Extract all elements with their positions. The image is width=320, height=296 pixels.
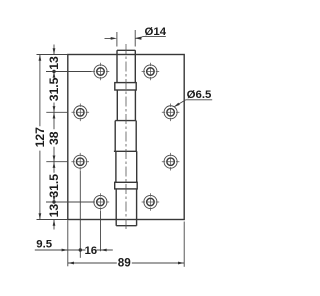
dimension 9.5 arrow	[62, 249, 68, 252]
knuckle segment 1 (top)	[117, 50, 135, 82]
knuckle barrel bottom cap	[116, 225, 136, 227]
bottom extension line plate right edge	[183, 222, 185, 267]
dimension 16 arrow	[101, 249, 107, 252]
extension line bottom edge (left)	[37, 219, 68, 221]
svg-text:38: 38	[47, 131, 61, 145]
screw hole H3 (left outer, row 2)	[72, 104, 90, 122]
screw hole H2 (right inner, row 1)	[142, 63, 160, 81]
svg-text:Ø14: Ø14	[145, 26, 167, 38]
extension line top edge (left)	[37, 54, 68, 56]
dimension 89 line	[68, 262, 184, 264]
pin centerline	[125, 44, 127, 232]
svg-text:13: 13	[47, 204, 61, 218]
chain dot at row4	[52, 200, 55, 203]
knuckle segment 2	[117, 90, 135, 121]
knuckle joint line 1	[115, 120, 136, 122]
extension line row 4	[46, 201, 94, 203]
dimension Ø6.5 label underline	[186, 99, 212, 101]
svg-text:127: 127	[33, 127, 47, 148]
knuckle barrel top cap	[117, 49, 135, 51]
svg-text:31.5: 31.5	[47, 77, 61, 101]
extension line row 1	[46, 71, 92, 73]
chain dimension line x=54 segments	[53, 45, 55, 230]
chain arrow down above row4	[53, 196, 56, 202]
dimension Ø6.5 leader arrow	[175, 100, 186, 107]
chain arrow up below bottom edge	[53, 220, 56, 226]
dimension 127 line	[39, 55, 41, 220]
svg-text:13: 13	[47, 56, 61, 70]
screw hole H1 (left inner, row 1)	[92, 63, 110, 81]
svg-text:89: 89	[118, 257, 132, 270]
dimension chain dot at hole column	[79, 248, 82, 251]
knuckle segment 3	[115, 121, 136, 152]
bottom extension line hole column inner	[100, 211, 102, 251]
svg-text:Ø6.5: Ø6.5	[187, 89, 212, 101]
knuckle joint line 2	[114, 150, 137, 152]
bottom extension line plate left edge	[67, 220, 69, 266]
chain arrows at row2	[53, 106, 56, 112]
knuckle segment 4	[116, 151, 137, 182]
svg-text:9.5: 9.5	[36, 239, 52, 251]
bottom extension line hole column outer	[79, 171, 81, 258]
knuckle segment 5 (bottom)	[116, 189, 136, 226]
chain arrow down at top edge	[53, 48, 56, 54]
extension line row 3	[46, 161, 67, 163]
svg-text:31.5: 31.5	[47, 174, 61, 198]
extension line row 2	[46, 111, 67, 113]
hinge plate outline	[68, 55, 184, 220]
dimension 127 arrows	[39, 55, 42, 61]
svg-text:16: 16	[84, 245, 97, 257]
chain arrows at row3	[53, 156, 56, 162]
chain dot at row1	[52, 70, 55, 73]
screw hole H8 (right inner, row 4)	[142, 193, 160, 211]
screw hole H7 (left inner, row 4)	[92, 193, 110, 211]
dimension Ø14 label underline	[142, 35, 166, 37]
screw hole H6 (right outer, row 3)	[162, 153, 180, 171]
screw hole H4 (right outer, row 2)	[162, 104, 180, 122]
screw hole H5 (left outer, row 3)	[71, 153, 89, 171]
bearing ring 2	[115, 182, 138, 189]
bearing ring 1	[115, 83, 136, 90]
dimension Ø14 line and arrows	[105, 37, 143, 38]
dimension 89 arrows	[68, 262, 74, 265]
chain arrow up below row1	[53, 72, 56, 78]
dimension Ø14 extension lines	[117, 30, 135, 47]
dimension 9.5/16 line	[35, 249, 113, 251]
